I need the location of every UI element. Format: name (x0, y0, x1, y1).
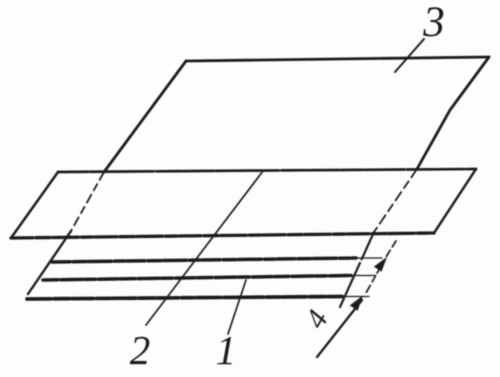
svg-text:4: 4 (299, 305, 335, 334)
leader line for 3 (395, 39, 424, 72)
label 1 (216, 327, 237, 373)
label 2 (130, 327, 151, 373)
leader line for 1 (228, 280, 246, 334)
sheet 3 top edge (186, 57, 489, 61)
sheet 3 left edge (104, 61, 186, 172)
L1 thin extension (356, 257, 382, 259)
sheet 3 right edge (417, 57, 489, 169)
dimension line 4 (385, 241, 396, 259)
svg-text:1: 1 (216, 327, 237, 373)
sheet 2 bottom edge (11, 233, 434, 238)
dimension arrow upper (375, 258, 386, 271)
stack left closure (28, 231, 71, 294)
stack layer line L1 (52, 258, 356, 262)
stack layer line L2 (43, 276, 351, 281)
sheet 2 right edge (434, 169, 476, 233)
svg-text:3: 3 (422, 0, 445, 46)
left dash-dot axis (71, 172, 104, 231)
sheet 2 left edge (11, 172, 58, 238)
right closure (solid part of axis) (340, 232, 374, 307)
leader line for 2 (146, 171, 263, 325)
label 3 (422, 0, 445, 46)
right dash-dot axis upper (374, 169, 417, 232)
L3 thin extension (342, 296, 369, 298)
stack layer line L3 (27, 297, 342, 300)
sheet 2 top edge (long line, also bottom of sheet 3) (58, 169, 476, 172)
dimension arrow lower (351, 297, 362, 310)
svg-text:2: 2 (130, 327, 151, 373)
L2 thin extension (351, 275, 376, 277)
label 4 (rotated) (299, 305, 335, 334)
